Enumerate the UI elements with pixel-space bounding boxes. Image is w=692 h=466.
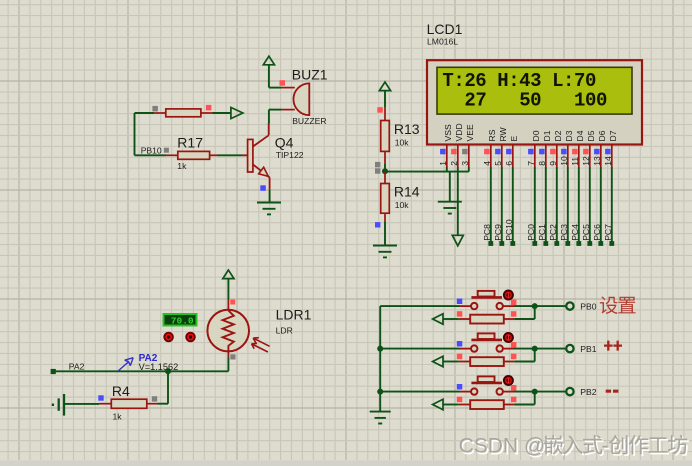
terminal PB0 [566, 302, 573, 309]
pin marker PB2 left top [457, 384, 463, 390]
wire net PC9 [493, 167, 504, 246]
LCD pin 8 D1 [537, 130, 552, 167]
svg-text:D7: D7 [608, 130, 618, 141]
wire net PC3 [559, 167, 570, 246]
ground (R4 left, rotated) [53, 394, 64, 416]
wire R14 to ground [384, 222, 386, 246]
svg-text:D4: D4 [575, 130, 585, 141]
annotation ++ [604, 341, 622, 351]
wire bus to button PB0 [380, 305, 459, 307]
svg-text:PB2: PB2 [580, 387, 596, 397]
pin marker emitter [260, 185, 266, 191]
svg-text:PA2: PA2 [69, 362, 85, 372]
svg-text:PC9: PC9 [493, 224, 503, 241]
resistor R13 [381, 107, 390, 164]
pin marker R14 bottom [375, 222, 380, 227]
LCD pin 10 D3 [559, 130, 574, 167]
svg-text:PB1: PB1 [580, 344, 596, 354]
svg-text:E: E [509, 136, 519, 142]
svg-text:70.0: 70.0 [171, 315, 194, 326]
svg-text:PC6: PC6 [592, 224, 602, 241]
wire PB1 lower link [514, 349, 535, 362]
power terminal (buzzer supply) [263, 56, 274, 87]
svg-text:6: 6 [504, 161, 514, 166]
LDR1 photoresistor [207, 300, 269, 358]
svg-text:RW: RW [498, 126, 508, 141]
wire net PC5 [581, 167, 592, 246]
wire LCD contrast net [385, 167, 469, 172]
pin marker R4 left [98, 395, 103, 400]
node divider junction [382, 168, 388, 174]
push button PB0 [459, 291, 514, 324]
light meter display 70.0 [164, 314, 197, 326]
LCD pin 6 E [504, 136, 519, 168]
terminal arrow left (PB0) [433, 314, 443, 325]
wire PB2 lower link [514, 392, 535, 405]
resistor R4 [99, 399, 158, 408]
wire PB1 right [514, 348, 566, 350]
watermark CSDN [459, 435, 688, 458]
terminal arrow left (PB1) [433, 356, 443, 367]
svg-text:9: 9 [548, 161, 558, 166]
annotation -- [606, 390, 619, 393]
series resistor (top branch) [154, 109, 212, 117]
svg-text:PC8: PC8 [482, 224, 492, 241]
wire net PC8 [482, 167, 493, 246]
ground (LCD) [438, 202, 462, 214]
svg-text:D5: D5 [586, 130, 596, 141]
svg-text:-: - [602, 435, 609, 458]
pin marker PB0 left top [457, 299, 463, 305]
LCD pin 1 VSS [438, 124, 453, 167]
terminal PB1 [566, 345, 573, 352]
svg-text:10k: 10k [395, 200, 410, 210]
svg-text:D6: D6 [597, 130, 607, 141]
LCD screen [437, 67, 632, 114]
meter terminal right [186, 333, 195, 342]
svg-text:D1: D1 [542, 130, 552, 141]
pin markers PB2 [457, 385, 517, 402]
annotation 设置 [600, 296, 636, 314]
svg-text:8: 8 [537, 161, 547, 166]
wire PB2 right [514, 391, 566, 393]
LCD pin 3 VEE [460, 124, 475, 167]
button PB2 actuator [504, 376, 513, 385]
terminal arrow right [231, 107, 243, 118]
wire PB1 to arrow [443, 361, 459, 363]
svg-text:4: 4 [482, 161, 492, 166]
svg-text:R4: R4 [112, 383, 130, 399]
push button PB2 [459, 376, 514, 409]
origin markers divider junction [375, 162, 380, 174]
meter terminal left [164, 333, 173, 342]
LCD pin 13 D6 [592, 130, 607, 167]
ground (emitter) [257, 203, 281, 215]
terminal arrow left (PB2) [433, 399, 443, 410]
node PA2/R4 junction [165, 368, 171, 374]
LCD pin 4 RS [482, 129, 497, 167]
wire R17 to Q4 base [218, 154, 248, 156]
power terminal (LDR top) [223, 270, 234, 300]
svg-text:1k: 1k [113, 412, 123, 422]
svg-text:12: 12 [581, 156, 591, 166]
svg-text:1k: 1k [177, 161, 187, 171]
wire PB2 to arrow [443, 404, 459, 406]
svg-text:D2: D2 [553, 130, 563, 141]
svg-text:BUZZER: BUZZER [292, 116, 326, 126]
svg-text:PC5: PC5 [581, 224, 591, 241]
svg-text:TIP122: TIP122 [276, 150, 304, 160]
wire to terminal arrow [213, 112, 232, 114]
svg-text:PC10: PC10 [504, 219, 514, 241]
wire PB10 to R17 [135, 154, 166, 156]
LCD pin 2 VDD [449, 123, 464, 167]
node PB0 junction [532, 303, 538, 309]
watermark shadow [460, 436, 689, 459]
buzzer BUZ1 [281, 83, 309, 115]
terminal block PA2 [51, 369, 56, 374]
wire net PC6 [592, 167, 603, 246]
pin marker R13 top [377, 107, 383, 113]
wire buzzer bottom to collector [269, 110, 281, 124]
svg-text:PC7: PC7 [603, 224, 613, 241]
svg-text:PC0: PC0 [526, 224, 536, 241]
svg-text:3: 3 [460, 161, 470, 166]
svg-text:D3: D3 [564, 130, 574, 141]
voltage probe PA2 [119, 353, 158, 371]
LCD pin 5 RW [493, 126, 508, 167]
wire net PC7 [603, 167, 614, 246]
svg-text:PB0: PB0 [580, 302, 596, 312]
wire PA2 [53, 370, 228, 372]
svg-text:R13: R13 [394, 121, 420, 137]
svg-text:PC3: PC3 [559, 224, 569, 241]
svg-text:R14: R14 [394, 184, 420, 200]
wire VDD drop [457, 167, 459, 235]
pin marker PB1 left top [457, 341, 463, 347]
transistor Q4 [248, 123, 270, 189]
svg-text:PC4: PC4 [570, 224, 580, 241]
wire bus to button PB1 [380, 348, 459, 350]
LCD pin 7 D0 [526, 130, 541, 167]
svg-text:PC2: PC2 [548, 224, 558, 241]
wire PB0 to arrow [443, 318, 459, 320]
wire LDR bottom [227, 358, 229, 372]
svg-text:BUZ1: BUZ1 [292, 67, 328, 83]
origin marker R4 right [152, 396, 157, 401]
pin marker series resistor left [152, 106, 158, 112]
svg-text:PB10: PB10 [141, 145, 162, 155]
origin marker LDR bottom [230, 354, 235, 359]
LCD pin 9 D2 [548, 130, 563, 167]
resistor R17 [166, 151, 218, 159]
pin marker LDR top [230, 300, 235, 305]
svg-text:VDD: VDD [454, 123, 464, 141]
power terminal down (LCD VDD) [452, 235, 463, 246]
wire junction [384, 164, 386, 172]
resistor R14 [381, 172, 390, 222]
svg-text:1: 1 [438, 161, 448, 166]
svg-text:13: 13 [592, 156, 602, 166]
svg-text:LDR: LDR [276, 325, 293, 335]
ground (button bus) [370, 412, 391, 424]
pin markers PB1 [457, 342, 517, 359]
power terminal (divider top) [379, 82, 390, 107]
wire net PC0 [526, 167, 537, 246]
wire ground drop [449, 172, 451, 202]
svg-text:RS: RS [487, 129, 497, 141]
svg-text:11: 11 [570, 157, 580, 166]
pin markers PB0 [457, 300, 517, 317]
node PB10 branch corner wire [135, 113, 155, 155]
svg-text:CSDN @: CSDN @ [459, 435, 546, 458]
wire ground to R4 [64, 403, 99, 405]
node bus row2 [377, 346, 383, 352]
svg-text:LM016L: LM016L [427, 37, 458, 47]
svg-text:10: 10 [559, 156, 569, 166]
svg-text:R17: R17 [177, 135, 203, 151]
svg-text:PC1: PC1 [537, 224, 547, 241]
wire net PC10 [504, 167, 515, 246]
push button PB1 [459, 333, 514, 366]
svg-text:5: 5 [493, 161, 503, 166]
origin marker PB10 [164, 148, 169, 153]
wire buzzer top pin [269, 87, 281, 89]
node PB1 junction [532, 346, 538, 352]
wire emitter to ground [269, 189, 271, 202]
ground (divider) [373, 246, 397, 258]
svg-text:D0: D0 [531, 130, 541, 141]
pin marker series resistor right [206, 105, 212, 111]
wire PB0 lower link [514, 306, 535, 319]
wire net PC1 [537, 167, 548, 246]
terminal PB2 [566, 388, 573, 395]
wire bus to button PB2 [380, 391, 459, 393]
svg-text:V=1.1562: V=1.1562 [139, 362, 179, 372]
svg-text:2: 2 [449, 161, 459, 166]
button PB1 actuator [504, 333, 513, 342]
LCD pin 11 D4 [570, 130, 585, 167]
svg-text:10k: 10k [395, 138, 410, 148]
wire junction to R4 [158, 371, 169, 403]
pin marker buzzer + [280, 80, 286, 86]
LCD pin 14 D7 [603, 130, 618, 167]
svg-text:T:26 H:43 L:70: T:26 H:43 L:70 [442, 70, 596, 92]
LCD LM016L body [427, 60, 642, 144]
svg-text:VSS: VSS [443, 124, 453, 141]
svg-text:7: 7 [526, 161, 536, 166]
wire net PC2 [548, 167, 559, 246]
svg-text:LDR1: LDR1 [276, 306, 312, 322]
button PB0 actuator [504, 291, 513, 300]
node bus row3 [377, 389, 383, 395]
wire PB0 right [514, 305, 566, 307]
LCD pin 12 D5 [581, 130, 596, 167]
node PB2 junction [532, 389, 538, 395]
wire net PC4 [570, 167, 581, 246]
svg-text:14: 14 [603, 156, 613, 166]
svg-text:27 50 100: 27 50 100 [442, 90, 607, 112]
svg-text:VEE: VEE [465, 124, 475, 141]
wire button bus [379, 306, 381, 412]
svg-text:LCD1: LCD1 [427, 21, 463, 37]
svg-text:Q4: Q4 [275, 134, 294, 150]
